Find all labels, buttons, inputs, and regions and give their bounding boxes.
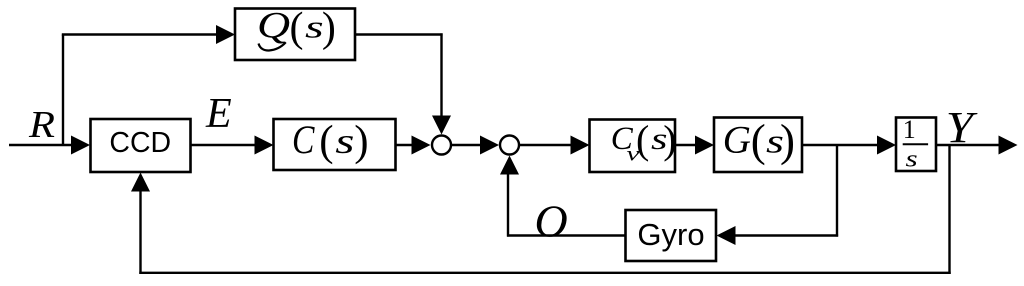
svg-text:O: O (535, 196, 568, 247)
wire sum2 to Cv(s) (520, 144, 573, 146)
summing junction S2 (500, 136, 519, 155)
wire branch down to Gyro (836, 144, 838, 237)
wire C(s) to sum1 (396, 144, 415, 146)
svg-text:): ) (663, 117, 676, 162)
summing junction S1 (432, 136, 451, 155)
wire Gyro output left (507, 234, 626, 236)
wire Gyro feedback up to sum2 (507, 172, 509, 237)
svg-text:(: ( (319, 118, 333, 165)
svg-text:1: 1 (903, 115, 916, 144)
fraction bar (903, 143, 928, 145)
wire branch up to Q(s) (62, 35, 64, 147)
arrowhead into G(s) (695, 136, 714, 155)
svg-text:Gyro: Gyro (637, 217, 704, 252)
wire outer feedback bottom (139, 272, 950, 274)
arrowhead into sum2 bottom (500, 156, 519, 175)
arrowhead into Cv(s) (571, 136, 590, 155)
svg-text:): ) (354, 118, 368, 165)
wire 1/s output (936, 144, 1001, 146)
svg-text:(: ( (636, 117, 649, 162)
block C(s) (274, 119, 396, 170)
arrowhead into sum1 (412, 136, 431, 155)
block CCD (91, 119, 191, 172)
wire Q(s) output right (355, 33, 443, 35)
svg-text:s: s (335, 122, 354, 161)
block Gyro (626, 210, 717, 261)
arrowhead output Y (999, 136, 1018, 155)
wire input R (9, 144, 74, 146)
wire Q(s) output down (440, 33, 442, 118)
wire G(s) output (802, 144, 880, 146)
block 1/s (896, 118, 936, 172)
block G(s) (714, 118, 802, 173)
svg-text:E: E (205, 91, 232, 137)
arrowhead into C(s) (255, 136, 274, 155)
block Q(s) (235, 9, 355, 61)
block Cv(s) (590, 120, 676, 173)
wire outer feedback down from Y (948, 144, 950, 274)
svg-text:s: s (305, 9, 324, 44)
svg-text:): ) (780, 116, 795, 166)
arrowhead into CCD (71, 136, 90, 155)
wire branch horizontal to Gyro (732, 234, 838, 236)
svg-text:CCD: CCD (109, 127, 171, 159)
svg-text:): ) (322, 5, 336, 51)
svg-text:(: ( (290, 5, 304, 51)
arrowhead into 1/s (877, 136, 896, 155)
wire sum1 to sum2 (452, 144, 484, 146)
arrowhead into sum1 top (432, 116, 451, 135)
arrowhead into Q(s) (216, 25, 235, 44)
arrowhead into CCD bottom (131, 173, 150, 192)
svg-text:R: R (28, 103, 55, 145)
svg-text:(: ( (751, 116, 766, 166)
svg-text:s: s (906, 146, 918, 173)
svg-text:G: G (723, 119, 751, 162)
wire top horizontal to Q(s) (62, 33, 219, 35)
wire outer feedback up into CCD (139, 189, 141, 274)
arrowhead into Gyro right side (717, 226, 736, 245)
wire CCD to C(s) (191, 144, 259, 146)
svg-text:Q: Q (257, 6, 290, 47)
arrowhead into sum2 (480, 136, 499, 155)
wire Cv(s) to G(s) (675, 144, 698, 146)
svg-text:C: C (292, 117, 315, 161)
